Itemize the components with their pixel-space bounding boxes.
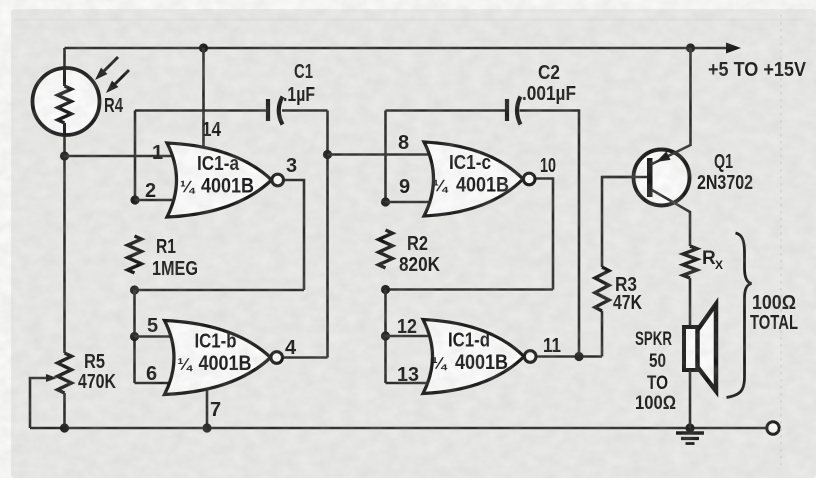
op-amp gate U1a IC1-a <box>167 143 272 217</box>
wire R1 bottom to output-3 riser <box>135 289 305 292</box>
wire pin 12 input <box>386 335 449 338</box>
wire C1 right segment to vertical <box>282 109 328 112</box>
wire pin 5 input <box>135 335 193 338</box>
supply arrowhead <box>726 43 741 54</box>
node pin 5 junction <box>130 332 139 341</box>
wire pin 9 input <box>386 201 449 204</box>
wire pin 14 stub <box>202 48 205 160</box>
speaker SPKR <box>684 327 698 370</box>
resistor R5 470K (rheostat) <box>58 353 72 393</box>
wire R2 bottom down to pin 12 / pin 13 <box>384 290 387 384</box>
node R5 bottom rail junction <box>60 423 69 432</box>
node pin 8 branch junction <box>323 150 332 159</box>
wire C2 riser down to pin 9 <box>384 111 387 203</box>
node R1 bottom junction <box>130 285 139 294</box>
wire Q1 base <box>602 176 647 179</box>
light arrow 1 into R4 <box>102 57 118 73</box>
wire R4 bottom to R5 and bottom rail <box>63 133 66 428</box>
wire C1 left segment <box>135 109 266 112</box>
wire R4 top riser <box>63 48 66 70</box>
brace 100 ohm total <box>727 233 752 398</box>
light arrow 2 into R4 <box>113 70 129 86</box>
capacitor C2 <box>505 99 509 121</box>
resistor R1 1MEG <box>128 236 142 273</box>
wire pin 8 input <box>328 153 449 156</box>
ground symbol <box>689 428 692 431</box>
resistor R3 47K <box>595 267 609 311</box>
wire Rx to speaker <box>689 278 692 327</box>
node R2 bottom junction <box>381 285 390 294</box>
node R4 bottom / pin 1 junction <box>60 151 69 160</box>
scan artifact dotted line (decorative) <box>780 15 782 465</box>
transistor Q1 2N3702 <box>634 150 690 206</box>
open terminal <box>767 422 779 434</box>
wire pin 7 stub <box>206 385 209 428</box>
wire pin 13 input <box>386 382 449 385</box>
wire pin 6 input <box>135 382 193 385</box>
wire R5 wiper arm <box>30 378 47 428</box>
node pin 7 rail junction <box>202 423 211 432</box>
node pin 2 / R1 top junction <box>130 195 139 204</box>
wire R3 top lead to Q1 base <box>602 177 648 267</box>
op-amp gate U1c IC1-c <box>424 142 523 216</box>
photocell R4 <box>33 68 100 135</box>
wire R2 bottom to output-10 riser <box>386 288 554 291</box>
wire R3 bottom lead <box>601 311 604 357</box>
wire speaker to ground rail <box>689 370 692 428</box>
R5 wiper arrowhead <box>46 374 57 382</box>
wire C1 vertical down to IC1-b output <box>326 111 329 358</box>
wire bottom ground rail <box>30 427 767 430</box>
wire IC1-d output 11 to R3 <box>537 355 602 358</box>
resistor Rx <box>683 246 697 278</box>
op-amp gate U1d IC1-d <box>423 320 524 394</box>
node pin 9 / R2 top junction <box>381 197 390 206</box>
node C2 vertical / output 11 junction <box>574 352 583 361</box>
node pin 12 junction <box>381 331 390 340</box>
node supply junction pin14 riser <box>199 43 208 52</box>
wire Q1 emitter to supply <box>652 48 691 164</box>
wire C2 right segment and vertical down to output 11 <box>520 111 580 357</box>
node speaker / ground rail junction <box>685 423 694 432</box>
node supply junction Q1 emitter <box>686 43 695 52</box>
capacitor C1 <box>266 99 270 121</box>
resistor R2 820K <box>379 230 393 268</box>
wire feedback vertical to pin 2 / C1 left <box>134 111 137 201</box>
wire pin 2 input <box>135 199 192 202</box>
op-amp gate U1b IC1-b <box>165 321 271 395</box>
wire Q1 collector down to Rx <box>652 190 690 246</box>
wire IC1-a output 3 <box>283 180 304 290</box>
wire top supply rail <box>65 47 728 50</box>
wire pin 1 input <box>65 155 193 158</box>
wire C2 left segment from pin9 riser <box>386 109 506 112</box>
wire IC1-b output 4 to C1 vertical <box>282 356 328 359</box>
wire IC1-c output 10 <box>536 179 553 290</box>
wire R1 bottom down to pin 5 <box>133 290 136 383</box>
